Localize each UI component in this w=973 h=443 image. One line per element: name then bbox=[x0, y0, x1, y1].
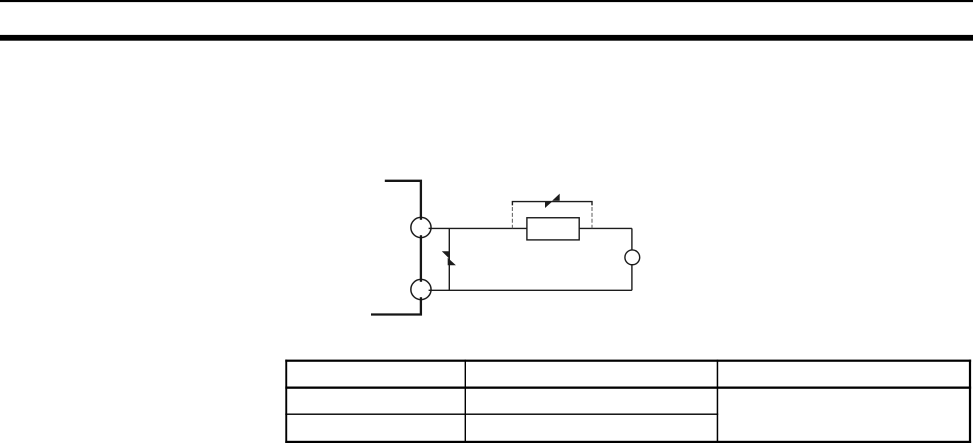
wire tick entering upper terminal from right bbox=[429, 227, 432, 229]
terminal (upper output terminal) bbox=[411, 217, 431, 237]
dashed annotation box: left dashed vertical bbox=[511, 207, 513, 228]
surge absorber flash symbol (upper triangle) bbox=[442, 251, 450, 259]
wire: surge-absorber branch vertical bbox=[448, 228, 450, 290]
page top hairline rule bbox=[0, 0, 973, 2]
table row divider (thin, spans columns 1-2 only) bbox=[285, 414, 718, 415]
wire tick inside upper terminal (top) bbox=[420, 217, 422, 220]
wire: bottom horizontal return to lower terminal bbox=[429, 289, 632, 291]
wire tick inside lower terminal (top) bbox=[420, 279, 422, 282]
wire tick entering lower terminal from right bbox=[429, 289, 432, 291]
dashed annotation box: right dashed vertical bbox=[591, 207, 593, 228]
table right border bbox=[969, 360, 971, 443]
load resistor bbox=[527, 218, 579, 240]
variable arrow flash on annotation line (upper triangle) bbox=[552, 194, 560, 201]
terminal (lower COM terminal) bbox=[411, 279, 431, 299]
table column divider 1 bbox=[465, 360, 466, 443]
wire: right vertical drop to indicator circle bbox=[631, 228, 633, 290]
table top border bbox=[285, 360, 971, 362]
wire: module outline (top stub, left vertical, bottom stub) bbox=[371, 181, 421, 315]
surge absorber flash symbol (lower triangle) bbox=[448, 258, 456, 266]
page header thick rule bbox=[0, 35, 973, 41]
table header bottom rule (thick) bbox=[285, 387, 971, 389]
table bottom border bbox=[285, 441, 971, 443]
variable arrow flash on annotation line (lower triangle) bbox=[545, 201, 552, 208]
wire tick inside lower terminal (bottom) bbox=[420, 297, 422, 300]
table column divider 2 bbox=[717, 360, 719, 443]
wire: top horizontal from upper terminal to right corner bbox=[429, 227, 632, 229]
table left border bbox=[285, 360, 287, 443]
wire tick inside upper terminal (bottom) bbox=[420, 235, 422, 238]
dashed annotation box: solid top line with short corner drops bbox=[512, 202, 592, 206]
power supply indicator circle bbox=[625, 250, 640, 265]
